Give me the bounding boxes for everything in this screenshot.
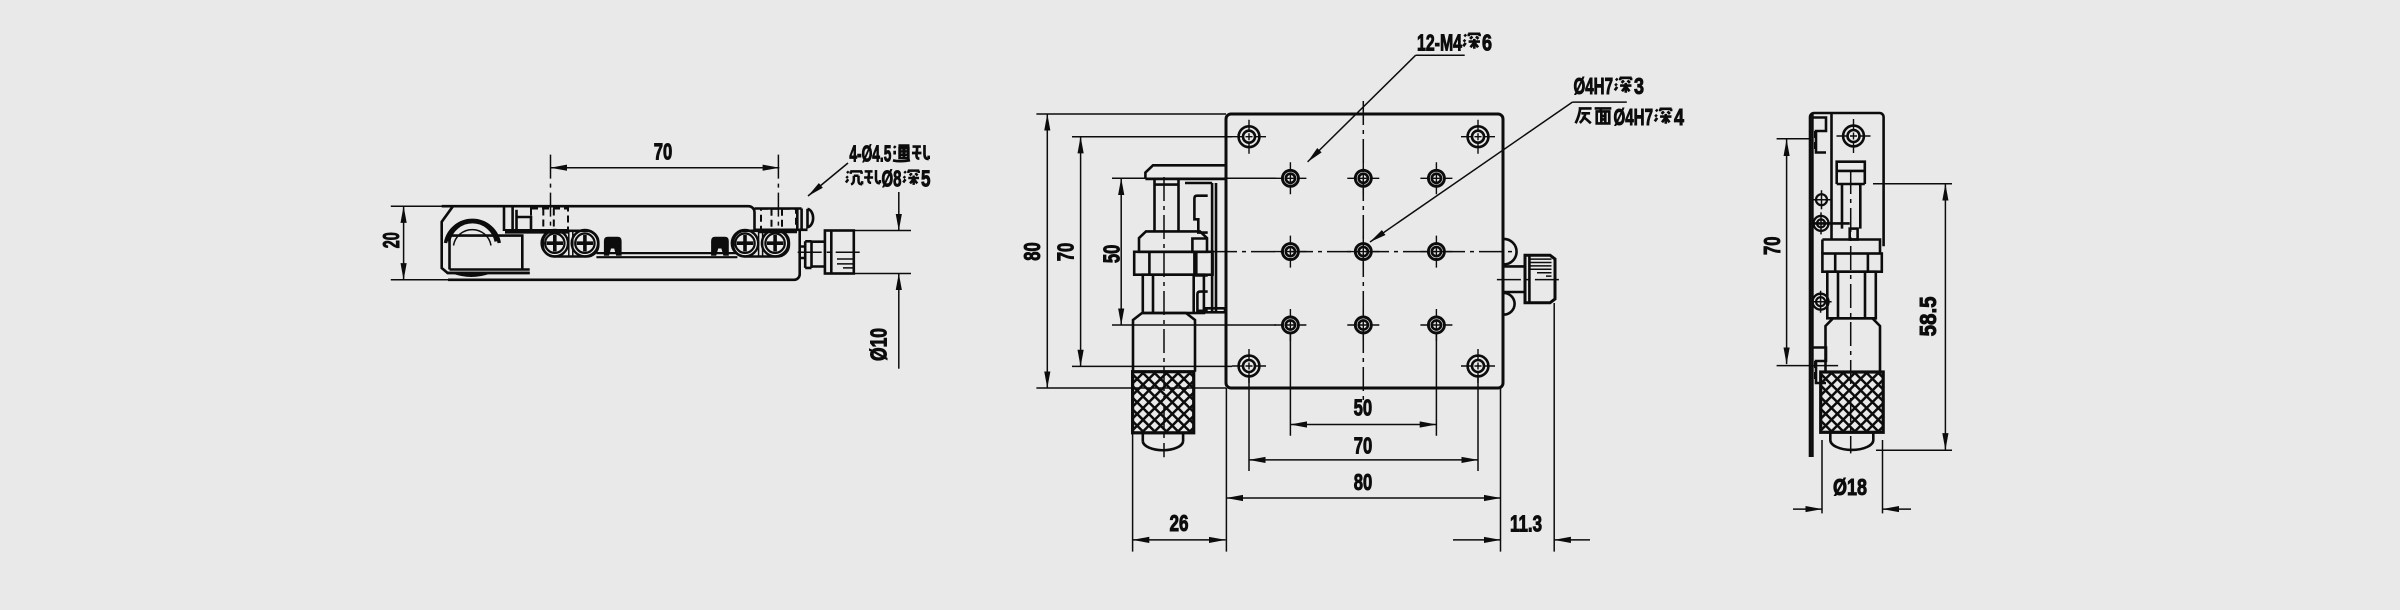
svg-text:Ø10: Ø10 xyxy=(865,328,891,361)
svg-text:26: 26 xyxy=(1170,510,1189,536)
svg-text:80: 80 xyxy=(1354,469,1373,495)
svg-text:6: 6 xyxy=(1482,30,1492,56)
svg-text:Ø4H7: Ø4H7 xyxy=(1614,104,1654,130)
svg-text:70: 70 xyxy=(654,139,673,165)
svg-text:58.5: 58.5 xyxy=(1915,296,1941,336)
svg-text:70: 70 xyxy=(1759,237,1785,256)
svg-text:80: 80 xyxy=(1019,242,1045,261)
svg-text:Ø8: Ø8 xyxy=(882,166,902,192)
svg-text:Ø18: Ø18 xyxy=(1833,474,1867,500)
svg-text:12-M4: 12-M4 xyxy=(1417,30,1462,56)
svg-text:3: 3 xyxy=(1634,73,1644,99)
svg-text:Ø4H7: Ø4H7 xyxy=(1574,73,1614,99)
svg-text:50: 50 xyxy=(1099,245,1125,264)
svg-text:70: 70 xyxy=(1053,243,1079,262)
svg-text:20: 20 xyxy=(378,232,404,248)
svg-text:11.3: 11.3 xyxy=(1510,510,1542,536)
svg-text:4-Ø4.5: 4-Ø4.5 xyxy=(849,141,891,167)
svg-text:50: 50 xyxy=(1354,394,1373,420)
svg-text:5: 5 xyxy=(921,166,931,192)
svg-text:4: 4 xyxy=(1674,104,1684,130)
svg-text:70: 70 xyxy=(1354,432,1373,458)
